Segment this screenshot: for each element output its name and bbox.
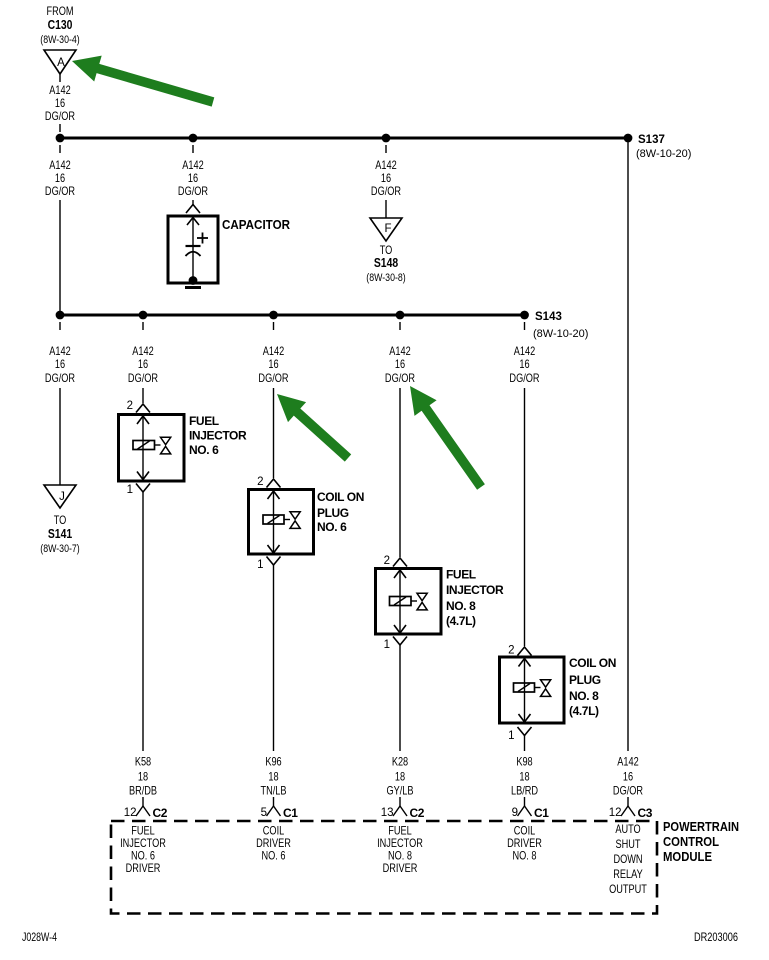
svg-text:(8W-30-8): (8W-30-8) bbox=[366, 272, 405, 284]
wire to fuel injector 8 bbox=[399, 388, 401, 557]
svg-text:GY/LB: GY/LB bbox=[386, 786, 413, 798]
svg-text:TO: TO bbox=[54, 515, 67, 527]
wire x60 bus1 to bus2 bbox=[59, 200, 61, 315]
svg-text:NO. 6: NO. 6 bbox=[261, 851, 285, 863]
svg-text:S143: S143 bbox=[535, 311, 562, 323]
fuel injector NO.8 box bbox=[376, 569, 442, 635]
wire tick below bus1 x193 bbox=[192, 145, 194, 153]
svg-text:NO. 8: NO. 8 bbox=[446, 599, 476, 613]
svg-text:COIL: COIL bbox=[263, 826, 285, 838]
svg-text:(8W-10-20): (8W-10-20) bbox=[636, 148, 691, 160]
svg-text:(8W-10-20): (8W-10-20) bbox=[533, 328, 588, 340]
powertrain control module dashed box bbox=[111, 821, 657, 914]
capacitor internal wire bbox=[192, 217, 194, 280]
coil on plug NO.6 box bbox=[249, 490, 314, 555]
FI6 injector valve bowtie bbox=[161, 437, 171, 454]
svg-text:S141: S141 bbox=[48, 527, 73, 541]
PCM function: coil driver no.6 bbox=[256, 826, 291, 863]
svg-text:DRIVER: DRIVER bbox=[383, 863, 418, 875]
svg-text:1: 1 bbox=[508, 730, 514, 742]
COP8 internal bottom arrowhead bbox=[519, 714, 531, 722]
wire label A142 16 DG/OR (bus2 x60) bbox=[45, 346, 76, 385]
svg-text:(4.7L): (4.7L) bbox=[446, 614, 476, 628]
FI6 internal wire bbox=[142, 415, 144, 480]
fuel injector NO.6 box bbox=[119, 415, 185, 482]
coil on plug NO.8 box bbox=[500, 657, 565, 723]
svg-text:C1: C1 bbox=[283, 806, 298, 820]
svg-text:16: 16 bbox=[519, 359, 529, 371]
svg-text:INJECTOR: INJECTOR bbox=[120, 838, 166, 850]
svg-text:2: 2 bbox=[257, 476, 263, 488]
svg-text:NO. 6: NO. 6 bbox=[317, 520, 347, 534]
node S141 label bbox=[40, 515, 79, 555]
capacitor curved plate bbox=[186, 252, 201, 256]
PCM name label bbox=[663, 819, 739, 864]
wire tick below bus2 x273.5 bbox=[273, 322, 275, 330]
svg-text:A142: A142 bbox=[375, 160, 397, 172]
wire tick below bus1 x60 bbox=[59, 145, 61, 153]
connector chevron pin 1 COP6 bbox=[267, 557, 281, 566]
wire: bus to splice S137 bbox=[60, 137, 628, 140]
connector chevron pin 1 FI8 bbox=[393, 637, 407, 646]
svg-text:C1: C1 bbox=[534, 806, 549, 820]
svg-text:DRIVER: DRIVER bbox=[507, 838, 542, 850]
svg-text:5: 5 bbox=[261, 807, 267, 819]
node S148 label bbox=[366, 245, 405, 284]
COP6 valve bowtie bbox=[290, 512, 300, 529]
connector chevron pin 2 FI8 bbox=[393, 558, 407, 567]
COP8 solenoid coil bbox=[514, 683, 541, 692]
svg-text:DG/OR: DG/OR bbox=[613, 786, 644, 798]
svg-text:A: A bbox=[57, 57, 65, 69]
green arrow callout 3 bbox=[410, 386, 485, 490]
svg-text:NO. 6: NO. 6 bbox=[189, 443, 219, 457]
wire label A142 16 DG/OR (right column) bbox=[613, 757, 644, 798]
svg-text:16: 16 bbox=[623, 772, 633, 784]
svg-text:(8W-30-7): (8W-30-7) bbox=[40, 543, 79, 555]
fuel injector NO.8 label bbox=[446, 568, 504, 629]
svg-text:COIL ON: COIL ON bbox=[317, 490, 364, 504]
capacitor ground dot bbox=[189, 276, 198, 285]
wire to triangle F bbox=[385, 200, 387, 218]
COP6 internal bottom arrowhead bbox=[268, 545, 280, 553]
svg-text:FUEL: FUEL bbox=[189, 414, 219, 428]
junction dot at x400 bus2 bbox=[396, 311, 405, 320]
splice S143 dot bbox=[520, 311, 529, 320]
svg-text:A142: A142 bbox=[514, 346, 536, 358]
junction dot at x386 bus1 bbox=[382, 134, 391, 143]
green arrow callout 2 bbox=[277, 394, 351, 462]
svg-text:DG/OR: DG/OR bbox=[45, 373, 76, 385]
svg-text:DOWN: DOWN bbox=[613, 854, 642, 866]
svg-text:2: 2 bbox=[508, 645, 514, 657]
svg-text:18: 18 bbox=[268, 772, 278, 784]
svg-text:FUEL: FUEL bbox=[131, 826, 155, 838]
svg-text:DG/OR: DG/OR bbox=[371, 186, 402, 198]
connector chevron pin 2 FI6 bbox=[136, 404, 150, 413]
splice S143 label bbox=[533, 311, 588, 340]
svg-text:INJECTOR: INJECTOR bbox=[189, 429, 247, 443]
svg-text:1: 1 bbox=[257, 559, 263, 571]
svg-text:CONTROL: CONTROL bbox=[663, 834, 719, 849]
svg-text:DG/OR: DG/OR bbox=[45, 111, 76, 123]
PCM pin 9 C1 bbox=[512, 797, 550, 820]
svg-text:F: F bbox=[384, 223, 391, 235]
PCM function: coil driver no.8 bbox=[507, 826, 542, 863]
COP6 internal wire bbox=[273, 490, 275, 554]
FI8 injector valve bowtie bbox=[417, 593, 427, 610]
PCM pin 5 C1 bbox=[261, 797, 299, 820]
svg-text:C3: C3 bbox=[638, 806, 653, 820]
svg-text:16: 16 bbox=[268, 359, 278, 371]
svg-text:1: 1 bbox=[127, 484, 133, 496]
wire label A142 16 DG/OR (bus1 x193) bbox=[178, 160, 209, 198]
COP8 valve bowtie bbox=[541, 680, 551, 697]
svg-text:16: 16 bbox=[55, 359, 65, 371]
connector triangle J (to S141) bbox=[44, 485, 76, 508]
svg-text:C2: C2 bbox=[153, 806, 168, 820]
junction dot at x193 bus1 bbox=[189, 134, 198, 143]
connector chevron pin 1 COP8 bbox=[518, 727, 532, 736]
junction dot at x273.5 bus2 bbox=[269, 311, 278, 320]
capacitor top plate bbox=[186, 245, 201, 247]
capacitor plus sign bbox=[197, 233, 208, 244]
wire tick below bus1 x386 bbox=[385, 145, 387, 153]
junction dot at x60 bus1 bbox=[56, 134, 65, 143]
connector chevron pin 2 COP6 bbox=[267, 479, 281, 488]
wire label A142 16 DG/OR (bus1 x386) bbox=[371, 160, 402, 198]
svg-text:S137: S137 bbox=[638, 134, 665, 146]
PCM function: fuel injector no.6 driver bbox=[120, 826, 166, 876]
fuel injector NO.6 label bbox=[189, 414, 247, 457]
svg-text:DG/OR: DG/OR bbox=[128, 373, 159, 385]
svg-text:9: 9 bbox=[512, 807, 518, 819]
svg-text:K28: K28 bbox=[392, 757, 409, 769]
wire to coil on plug 6 bbox=[273, 388, 275, 478]
svg-text:K96: K96 bbox=[265, 757, 282, 769]
connector chevron pin 2 COP8 bbox=[518, 647, 532, 656]
svg-text:16: 16 bbox=[55, 98, 65, 110]
wire label A142 16 DG/OR (bus2 x400) bbox=[385, 346, 416, 385]
svg-text:COIL ON: COIL ON bbox=[569, 656, 616, 670]
coil on plug NO.6 label bbox=[317, 490, 364, 534]
FI8 internal wire bbox=[399, 569, 401, 634]
wire label A142 16 DG/OR (bus2 x524.5) bbox=[509, 346, 540, 385]
svg-text:MODULE: MODULE bbox=[663, 849, 712, 864]
wire to fuel injector 6 bbox=[142, 388, 144, 403]
PCM function: fuel injector no.8 driver bbox=[377, 826, 423, 876]
wire label K58 18 BR/DB bbox=[129, 757, 157, 798]
svg-text:POWERTRAIN: POWERTRAIN bbox=[663, 819, 739, 834]
wire label A142 16 DG/OR (bus2 x273.5) bbox=[258, 346, 289, 385]
svg-text:J: J bbox=[59, 491, 65, 503]
COP8 internal wire bbox=[524, 658, 526, 723]
splice S137 dot bbox=[624, 134, 633, 143]
svg-text:18: 18 bbox=[395, 772, 405, 784]
green arrow callout 1 bbox=[72, 56, 214, 107]
connector chevron pin 1 FI6 bbox=[136, 484, 150, 493]
svg-text:2: 2 bbox=[384, 555, 390, 567]
svg-text:LB/RD: LB/RD bbox=[511, 786, 539, 798]
PCM pin 12 C3 bbox=[609, 797, 653, 820]
svg-text:PLUG: PLUG bbox=[317, 506, 349, 520]
PCM function: auto shut down relay output bbox=[609, 824, 647, 896]
svg-text:A142: A142 bbox=[263, 346, 285, 358]
svg-text:CAPACITOR: CAPACITOR bbox=[222, 217, 291, 232]
wire label K96 18 TN/LB bbox=[260, 757, 286, 798]
wire into capacitor bbox=[192, 200, 194, 205]
svg-text:16: 16 bbox=[138, 359, 148, 371]
svg-text:BR/DB: BR/DB bbox=[129, 786, 157, 798]
wire label A142 16 DG/OR (bus2 x143) bbox=[128, 346, 159, 385]
svg-text:INJECTOR: INJECTOR bbox=[377, 838, 423, 850]
wire tick below bus2 x400 bbox=[399, 322, 401, 330]
svg-text:DG/OR: DG/OR bbox=[509, 373, 540, 385]
svg-text:DRIVER: DRIVER bbox=[126, 863, 161, 875]
connector triangle F (to S148) bbox=[370, 218, 402, 241]
wire COP8 to PCM bbox=[524, 736, 526, 752]
svg-text:K98: K98 bbox=[516, 757, 533, 769]
junction dot at x60 bus2 bbox=[56, 311, 65, 320]
svg-text:16: 16 bbox=[55, 173, 65, 185]
svg-text:A142: A142 bbox=[617, 757, 639, 769]
coil on plug NO.8 label bbox=[569, 656, 616, 718]
svg-text:12: 12 bbox=[609, 807, 622, 819]
FI6 internal bottom arrowhead bbox=[137, 472, 149, 480]
svg-text:J028W-4: J028W-4 bbox=[22, 932, 57, 944]
svg-text:NO. 6: NO. 6 bbox=[131, 851, 155, 863]
svg-text:FUEL: FUEL bbox=[388, 826, 412, 838]
svg-text:COIL: COIL bbox=[514, 826, 536, 838]
svg-text:16: 16 bbox=[395, 359, 405, 371]
svg-text:AUTO: AUTO bbox=[615, 824, 640, 836]
svg-text:S148: S148 bbox=[374, 256, 399, 270]
svg-text:RELAY: RELAY bbox=[613, 869, 643, 881]
svg-text:(4.7L): (4.7L) bbox=[569, 704, 599, 718]
connector chevron at capacitor pin bbox=[186, 205, 200, 214]
svg-text:DG/OR: DG/OR bbox=[45, 186, 76, 198]
wire tick below bus2 x524.5 bbox=[524, 322, 526, 330]
wire label K98 18 LB/RD bbox=[511, 757, 539, 798]
wire: splice S137 down to PCM C3 bbox=[627, 142, 629, 751]
PCM pin 13 C2 bbox=[381, 797, 425, 820]
svg-text:13: 13 bbox=[381, 807, 394, 819]
ground bar bbox=[185, 286, 201, 289]
junction dot at x143 bus2 bbox=[139, 311, 148, 320]
svg-text:NO. 8: NO. 8 bbox=[512, 851, 536, 863]
svg-text:PLUG: PLUG bbox=[569, 673, 601, 687]
wire tick below bus2 x60 bbox=[59, 322, 61, 330]
svg-text:INJECTOR: INJECTOR bbox=[446, 583, 504, 597]
svg-text:(8W-30-4): (8W-30-4) bbox=[40, 34, 79, 46]
wire tick below bus2 x143 bbox=[142, 322, 144, 330]
svg-text:2: 2 bbox=[127, 400, 133, 412]
COP8 internal top arrowhead bbox=[519, 659, 531, 667]
svg-text:1: 1 bbox=[384, 639, 390, 651]
svg-text:DR203006: DR203006 bbox=[694, 932, 738, 944]
wire FI6 to PCM bbox=[142, 492, 144, 751]
svg-text:DG/OR: DG/OR bbox=[258, 373, 289, 385]
capacitor internal arrowhead bbox=[187, 218, 199, 226]
svg-text:NO. 8: NO. 8 bbox=[569, 689, 599, 703]
FI8 internal top arrowhead bbox=[394, 570, 406, 578]
svg-text:A142: A142 bbox=[389, 346, 411, 358]
svg-text:C130: C130 bbox=[48, 18, 73, 32]
FI6 solenoid coil bbox=[133, 441, 161, 450]
splice S137 label bbox=[636, 134, 691, 160]
connector triangle A (from C130) bbox=[44, 50, 76, 74]
FI8 internal bottom arrowhead bbox=[394, 625, 406, 633]
svg-text:18: 18 bbox=[138, 772, 148, 784]
FI6 internal top arrowhead bbox=[137, 416, 149, 424]
COP6 solenoid coil bbox=[263, 515, 290, 524]
svg-text:A142: A142 bbox=[182, 160, 204, 172]
wire from triangle A bbox=[59, 74, 61, 82]
wire label A142 16 DG/OR (top) bbox=[45, 85, 76, 123]
COP6 internal top arrowhead bbox=[268, 491, 280, 499]
node C130 label FROM bbox=[40, 6, 79, 46]
svg-text:A142: A142 bbox=[49, 160, 71, 172]
wire x60 to triangle J bbox=[59, 388, 61, 485]
svg-text:A142: A142 bbox=[49, 85, 71, 97]
svg-text:A142: A142 bbox=[132, 346, 154, 358]
svg-text:12: 12 bbox=[124, 807, 137, 819]
svg-text:16: 16 bbox=[188, 173, 198, 185]
svg-text:DG/OR: DG/OR bbox=[178, 186, 209, 198]
svg-text:A142: A142 bbox=[49, 346, 71, 358]
svg-text:FUEL: FUEL bbox=[446, 568, 476, 582]
svg-text:K58: K58 bbox=[135, 757, 152, 769]
wire tick into splice S137 bus bbox=[59, 124, 61, 132]
svg-text:FROM: FROM bbox=[46, 6, 73, 18]
svg-text:TN/LB: TN/LB bbox=[260, 786, 286, 798]
wire FI8 to PCM bbox=[399, 645, 401, 751]
svg-text:DG/OR: DG/OR bbox=[385, 373, 416, 385]
svg-text:OUTPUT: OUTPUT bbox=[609, 884, 647, 896]
svg-text:SHUT: SHUT bbox=[615, 839, 641, 851]
wire COP6 to PCM bbox=[273, 565, 275, 751]
svg-text:18: 18 bbox=[519, 772, 529, 784]
wire: bus to splice S143 bbox=[60, 314, 525, 317]
capacitor box bbox=[168, 216, 218, 283]
FI8 solenoid coil bbox=[390, 597, 418, 606]
PCM pin 12 C2 bbox=[124, 797, 168, 820]
svg-text:C2: C2 bbox=[410, 806, 425, 820]
svg-text:16: 16 bbox=[381, 173, 391, 185]
wire to coil on plug 8 bbox=[524, 388, 526, 646]
wire label K28 18 GY/LB bbox=[386, 757, 413, 798]
wire label A142 16 DG/OR (bus1 x60) bbox=[45, 160, 76, 198]
svg-text:DRIVER: DRIVER bbox=[256, 838, 291, 850]
svg-text:NO. 8: NO. 8 bbox=[388, 851, 412, 863]
